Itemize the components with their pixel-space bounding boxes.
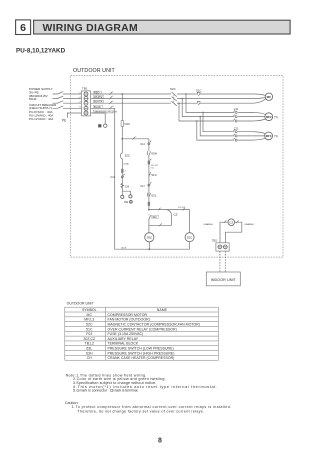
bus wire L2 52C to MC (177, 98, 265, 99)
outdoor unit dashed frame (71, 76, 284, 258)
table row 51C (86, 327, 177, 331)
TB1 pin labels L1 L2 L3 N (79, 92, 82, 108)
svg-text:L2: L2 (79, 97, 81, 99)
svg-text:TB1: TB1 (82, 87, 88, 91)
over current relay 51C element on L3 (197, 102, 200, 105)
table row TB1,2 (85, 342, 139, 346)
wire color label BLUE (93, 105, 102, 109)
svg-text:PRESSURE SWITCH (LOW PRESSURE): PRESSURE SWITCH (LOW PRESSURE) (108, 347, 174, 351)
svg-text:MAGNETIC CONTACTOR (COMPRESSOR: MAGNETIC CONTACTOR (COMPRESSOR,FAN MOTOR… (108, 323, 200, 327)
table row 63H (86, 351, 174, 355)
wire color label RED (93, 91, 101, 95)
bus wire L3 51C to MC (200, 99, 265, 104)
over current relay contact 51C (148, 171, 157, 177)
auxiliary relay contact 30Z (148, 214, 158, 219)
svg-text:PRESSURE SWITCH (HIGH PRESSURE: PRESSURE SWITCH (HIGH PRESSURE) (108, 351, 175, 355)
node control branch junction (121, 138, 123, 140)
connector mark (ring) (104, 124, 107, 127)
svg-text:PU-12YAKD : 40A: PU-12YAKD : 40A (29, 117, 53, 121)
svg-text:3: 3 (125, 171, 126, 173)
PE mark label (124, 200, 132, 204)
svg-text:FUSE (3.15A 250VAC): FUSE (3.15A 250VAC) (108, 332, 144, 336)
svg-text:AUXILIARY RELAY: AUXILIARY RELAY (108, 337, 139, 341)
terminal mark (filled square) (98, 124, 101, 127)
svg-text:MF3: MF3 (266, 134, 272, 138)
magnetic contactor 52C main contacts (170, 87, 177, 106)
svg-text:30Z,CZ: 30Z,CZ (83, 337, 96, 341)
table row 30Z,CZ (83, 337, 138, 341)
svg-text:63H: 63H (86, 351, 93, 355)
auxiliary relay coil CZ (228, 219, 235, 226)
connector tick on L3 (110, 101, 114, 104)
svg-text:52C: 52C (86, 323, 93, 327)
connector ring right (129, 195, 132, 198)
svg-text:2: 2 (112, 96, 113, 98)
table row MF2,3 (84, 318, 150, 322)
wire CZ coil left to TB2 (203, 220, 228, 243)
svg-text:BLUE: BLUE (121, 247, 127, 249)
svg-text:ORANGE: ORANGE (244, 223, 254, 226)
fan motor MF2 (265, 113, 278, 121)
svg-text:CZ: CZ (174, 212, 178, 216)
bus wire L2 (WHITE) (91, 98, 172, 100)
node fan tap on L3 (178, 102, 180, 104)
svg-text:6: 6 (20, 22, 26, 34)
bus wire L3 52C to 51C (177, 102, 197, 104)
svg-text:63H: 63H (151, 151, 157, 155)
bus wire L1 51C to MC (200, 94, 265, 95)
bus wire L1 (RED) (91, 93, 172, 95)
svg-text:63L: 63L (151, 194, 156, 198)
svg-text:63L: 63L (86, 347, 92, 351)
table row F03 (86, 332, 143, 336)
svg-text:WIRING DIAGRAM: WIRING DIAGRAM (43, 23, 138, 34)
wire CH to PE terminals (122, 191, 130, 195)
wire fan drop from L3 to MF2 wire3 (179, 103, 265, 121)
svg-text:C13: C13 (110, 176, 115, 179)
svg-text:1: 1 (112, 92, 113, 94)
crank case heater CH (121, 183, 129, 188)
svg-text:50HZ: 50HZ (29, 97, 37, 101)
wire protection chain vertical (148, 139, 150, 233)
svg-text:(*1): (*1) (274, 134, 278, 138)
svg-text:TB2: TB2 (212, 239, 218, 243)
wire color label GREEN(GR)+YELLOW (93, 110, 118, 113)
connector pair on chain (148, 159, 159, 170)
node fan tap on L2 (181, 98, 183, 100)
power supply label block (29, 87, 53, 101)
wire MF3 drop3 (197, 121, 265, 140)
auxiliary relay contact CZ parallel loop (149, 210, 178, 227)
svg-text:30Z: 30Z (147, 236, 152, 240)
field wiring dashed to indoor unit (220, 251, 225, 272)
svg-text:3: 3 (112, 101, 113, 103)
TB2 pin numbers (219, 255, 225, 257)
svg-text:L3: L3 (79, 102, 81, 104)
connector C17 (140, 182, 151, 188)
svg-text:(M4A): (M4A) (124, 163, 130, 166)
wire fan drop from L2 to MF2 wire2 (182, 99, 265, 117)
auxiliary relay coil 30Z (145, 233, 154, 242)
wire MF3 drop1 (203, 112, 265, 133)
svg-text:PE: PE (62, 119, 66, 123)
wire 52C coil to bottom bus (189, 242, 191, 250)
pressure switch 63H (high) (148, 150, 157, 156)
table row 52C (86, 323, 200, 327)
connector tick on L1 (110, 92, 114, 95)
table row MC (87, 313, 148, 317)
svg-text:INDOOR UNIT: INDOOR UNIT (211, 278, 237, 282)
circuit breaker switch L2 (53, 96, 82, 99)
connector pair on CH branch (121, 169, 125, 173)
circuit breaker switch L3 (53, 101, 82, 104)
svg-text:(*1): (*1) (274, 115, 278, 119)
svg-text:MC: MC (87, 313, 93, 317)
svg-text:OVER CURRENT RELAY (COMPRESSOR: OVER CURRENT RELAY (COMPRESSOR) (108, 327, 177, 331)
svg-text:COMPRESSOR MOTOR: COMPRESSOR MOTOR (108, 313, 148, 317)
svg-text:FAN MOTOR (OUTDOOR): FAN MOTOR (OUTDOOR) (108, 318, 150, 322)
svg-text:CH: CH (125, 185, 129, 189)
svg-text:5.: 5. (73, 389, 76, 393)
svg-text:CH: CH (87, 356, 93, 360)
terminal mark glyph in note 5 (111, 389, 113, 391)
wire branch to 52C coil (149, 207, 190, 233)
node fan tap on L1 (185, 93, 187, 95)
svg-text:L1: L1 (79, 92, 81, 94)
svg-text:MC: MC (267, 95, 272, 99)
svg-text:SYMBOL: SYMBOL (82, 308, 97, 312)
circuit breaker label block (29, 103, 57, 121)
connector tick on L2 (110, 96, 114, 99)
svg-text:2: 2 (135, 136, 136, 138)
connector mark glyph in note 5 (77, 389, 79, 391)
bottom bus wire BLUE (115, 247, 190, 249)
svg-text:F03: F03 (125, 122, 131, 126)
connector tick on N (110, 106, 115, 109)
node MF3 tap on wire1 (202, 112, 204, 114)
table header row (82, 308, 168, 312)
wire color label WHITE (93, 95, 103, 99)
bus wire N (BLUE) down to control circuit (91, 108, 115, 249)
svg-text:30Z: 30Z (152, 216, 157, 219)
svg-text:51C: 51C (86, 327, 93, 331)
wire 30Z coil to bottom bus (148, 242, 150, 249)
svg-text:MF2: MF2 (266, 115, 272, 119)
svg-text:mark is connector: mark is connector (80, 389, 108, 393)
svg-text:51C: 51C (151, 173, 157, 177)
wire color label BLACK (93, 100, 103, 104)
connector C21 (234, 128, 239, 142)
svg-text:C17: C17 (140, 185, 145, 188)
earth wire from TB1 to ground marks (91, 113, 106, 124)
wire fan drop from L1 to MF2 wire1 (186, 94, 265, 114)
table row CH (87, 356, 175, 360)
over current relay 51C element on L1 (196, 88, 202, 95)
svg-text:52C: 52C (170, 87, 176, 91)
svg-text:mark is terminal.: mark is terminal. (114, 389, 139, 393)
svg-text:PE: PE (124, 200, 128, 204)
compressor motor MC (265, 93, 272, 100)
node bottom bus junction (148, 248, 150, 250)
svg-text:TB1,2: TB1,2 (85, 342, 94, 346)
circuit breaker switch N (53, 106, 82, 109)
svg-text:PU-8,10,12YAKD: PU-8,10,12YAKD (16, 47, 66, 54)
wire control cross line (122, 136, 149, 139)
svg-text:F03: F03 (86, 332, 92, 336)
svg-text:51C: 51C (196, 88, 202, 92)
chapter number box 6 (16, 20, 31, 35)
terminal block TB2 (212, 239, 229, 252)
svg-text:NAME: NAME (157, 308, 168, 312)
fan motor MF3 (265, 132, 278, 140)
table row 63L (86, 347, 173, 351)
connector ring left (121, 195, 124, 198)
magnetic contactor coil 52C (185, 233, 194, 242)
connector C13 (110, 174, 124, 179)
bus wire L1 52C to 51C (177, 93, 197, 95)
bus wire L3 (BLACK) (91, 102, 172, 104)
connector C11 (234, 108, 239, 122)
fuse F03 (121, 94, 130, 139)
circuit breaker switch L1 (53, 92, 82, 95)
svg-text:CZ: CZ (229, 220, 233, 224)
wire MF3 drop2 (200, 117, 265, 136)
svg-text:TERMINAL BLOCK: TERMINAL BLOCK (108, 342, 139, 346)
node MF3 tap on wire3 (196, 120, 198, 122)
svg-text:OUTDOOR UNIT: OUTDOOR UNIT (67, 302, 95, 306)
svg-text:CRANK CASE HEATER (COMPRESSOR): CRANK CASE HEATER (COMPRESSOR) (108, 356, 175, 360)
wire CZ coil right to TB2 (225, 220, 254, 243)
indoor unit box (206, 272, 240, 286)
title bar WIRING DIAGRAM (34, 20, 291, 34)
svg-text:OUTDOOR UNIT: OUTDOOR UNIT (73, 68, 116, 74)
pressure switch 63L (low) (148, 192, 157, 198)
auxiliary contact 52C (crank case heater interlock) (121, 152, 131, 159)
symbol table grid (65, 307, 219, 360)
node F03 tap junction (121, 93, 123, 95)
svg-text:ORANGE: ORANGE (203, 223, 213, 226)
svg-text:52C: 52C (125, 154, 131, 158)
connector C14 (140, 141, 151, 146)
svg-text:Therefore, do not change facto: Therefore, do not change factory set val… (77, 409, 204, 413)
wire CH branch vertical (121, 139, 123, 191)
node chain junction (148, 209, 150, 211)
node MF3 tap on wire2 (199, 116, 201, 118)
svg-text:C14: C14 (140, 143, 145, 146)
caution block (65, 401, 232, 414)
svg-text:52C: 52C (187, 235, 193, 239)
svg-text:8: 8 (158, 437, 162, 444)
terminal block TB1 (82, 87, 91, 116)
connector pair above junction (148, 202, 150, 204)
svg-text:(*2): (*2) (151, 167, 154, 169)
svg-text:49C,63T: 49C,63T (178, 207, 186, 209)
notes block (66, 373, 218, 392)
svg-text:MF2,3: MF2,3 (84, 318, 94, 322)
PE wire (62, 113, 81, 123)
